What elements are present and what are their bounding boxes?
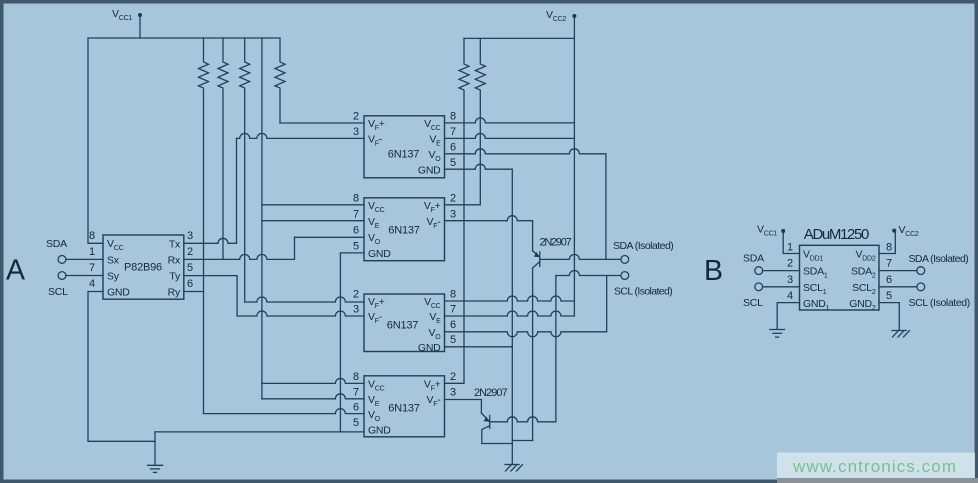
watermark band (777, 478, 978, 483)
svg-text:7: 7 (450, 126, 456, 138)
svg-text:2N2907: 2N2907 (540, 237, 572, 249)
wire SDA1 (763, 270, 800, 272)
svg-text:Sy: Sy (107, 271, 120, 283)
wire VCC1 rail (88, 37, 280, 39)
terminal SCL (B) circle (755, 283, 763, 291)
svg-text:ADuM1250: ADuM1250 (804, 226, 870, 243)
svg-text:7: 7 (353, 387, 359, 399)
svg-text:SCL (Isolated): SCL (Isolated) (909, 297, 971, 309)
wire SCL to Q2 base column (555, 276, 557, 422)
terminal SCL isolated (B) circle (917, 283, 925, 291)
wire opto4 VE line (262, 394, 364, 399)
node VCC2 dot (572, 14, 576, 18)
ground chassis symbol (B) (892, 331, 910, 338)
wire VDD1 feed (783, 233, 799, 254)
svg-text:2: 2 (353, 111, 359, 123)
svg-text:6: 6 (450, 142, 456, 154)
svg-text:5: 5 (886, 290, 892, 302)
wire Tx net to opto1 VF- (184, 138, 237, 243)
wire Q2 base line (490, 417, 556, 422)
wire opto2 VF- to Q1 emitter (445, 216, 533, 251)
wire left VCC drop to P82B96 pin8 (88, 38, 103, 243)
svg-text:3: 3 (787, 274, 793, 286)
svg-text:2N2907: 2N2907 (474, 387, 508, 399)
wire opto4 GND line (155, 431, 364, 433)
transistor Q1 2N2907 (533, 237, 572, 441)
wire opto4 VF- to Q2 emitter (445, 400, 482, 414)
wire GND2 to ground (879, 303, 899, 330)
wire opto1 VCC to VCC2 (445, 118, 575, 123)
wire VDD2 feed (879, 233, 895, 254)
wire Ty net (184, 276, 237, 316)
svg-text:3: 3 (353, 304, 359, 316)
svg-text:Rx: Rx (168, 255, 181, 267)
ground earth symbol (B) (770, 330, 785, 338)
svg-text:A: A (6, 255, 25, 287)
svg-text:7: 7 (89, 262, 95, 274)
resistor R6 (475, 38, 485, 204)
svg-text:2: 2 (450, 371, 456, 383)
wire Q1 collector to ground (512, 440, 532, 442)
terminal SDA isolated (B) circle (917, 267, 925, 275)
svg-text:SCL: SCL (743, 297, 763, 309)
wire SCL2 (879, 286, 917, 288)
wire P82B96 GND to ground (88, 292, 155, 442)
svg-text:7: 7 (450, 304, 456, 316)
svg-text:1: 1 (89, 246, 95, 258)
svg-text:8: 8 (450, 289, 456, 301)
wire Rx net (184, 237, 295, 259)
terminal SCL isolated circle (621, 272, 629, 280)
wire Q2 collector to ground (482, 443, 513, 445)
ground chassis symbol isolated (505, 465, 523, 472)
svg-text:GND: GND (368, 248, 391, 260)
wire isolated ground column (511, 169, 513, 463)
svg-text:5: 5 (450, 157, 456, 169)
wire opto2 VCC line (262, 204, 364, 206)
svg-text:4: 4 (787, 290, 793, 302)
wire opto2 VF+ to R6 (445, 204, 481, 206)
terminal SCL input circle (58, 272, 66, 280)
terminal SDA isolated circle (621, 256, 629, 264)
wire opto3 VCC to VCC2 (445, 296, 575, 301)
svg-text:6: 6 (353, 402, 359, 414)
wire VCC2 column (573, 18, 575, 301)
transistor Q2 2N2907 (474, 387, 508, 444)
wire opto1 VF+ line (280, 122, 364, 124)
svg-text:8: 8 (353, 193, 359, 205)
svg-text:6N137: 6N137 (388, 225, 419, 237)
wire opto2 GND column (340, 253, 364, 432)
wire opto3 VE line (445, 311, 575, 316)
svg-text:Ty: Ty (169, 271, 181, 283)
wire SCL node to opto3 VO (445, 276, 607, 337)
svg-text:8: 8 (450, 111, 456, 123)
svg-text:6N137: 6N137 (387, 320, 418, 332)
wire opto4 VF+ to R5 (445, 382, 465, 384)
wire opto4 VCC line (262, 378, 364, 383)
IC U1 P82B96 box (103, 235, 184, 299)
wire Q1 base SDA line (540, 254, 621, 259)
resistor R2 (218, 38, 228, 259)
opto-coupler U4 6N137 box (third) (364, 294, 445, 352)
svg-text:4: 4 (89, 278, 95, 290)
svg-text:2: 2 (787, 258, 793, 270)
opto-coupler U3 6N137 box (second) (364, 198, 445, 261)
opto-coupler U2 6N137 box (top) (364, 116, 445, 178)
svg-text:6: 6 (886, 274, 892, 286)
svg-text:GND: GND (368, 424, 391, 436)
svg-text:2: 2 (353, 289, 359, 301)
IC U6 ADuM1250 box (800, 245, 880, 310)
wire opto2 VO line (295, 236, 365, 238)
svg-text:6N137: 6N137 (388, 149, 419, 161)
svg-text:SDA (Isolated): SDA (Isolated) (909, 253, 969, 265)
wire opto4 VCC-VE tie stub (261, 383, 263, 398)
svg-text:7: 7 (353, 208, 359, 220)
svg-text:SCL: SCL (48, 286, 68, 298)
svg-text:5: 5 (353, 417, 359, 429)
svg-text:B: B (704, 255, 723, 287)
svg-text:Ry: Ry (168, 287, 181, 299)
wire Ry stub (184, 291, 204, 293)
svg-text:Tx: Tx (169, 238, 181, 250)
wire opto4 VO line (204, 409, 365, 414)
svg-text:5: 5 (187, 262, 193, 274)
terminal SDA input circle (58, 256, 66, 264)
svg-text:GND: GND (107, 287, 130, 299)
svg-text:2: 2 (450, 193, 456, 205)
wire SCL1 (763, 286, 800, 288)
wire opto3 VF- line (237, 311, 364, 316)
svg-text:GND: GND (418, 342, 441, 354)
svg-text:8: 8 (353, 371, 359, 383)
wire ground riser (154, 432, 156, 465)
wire opto3 VCC-VE tie stub (573, 301, 575, 316)
node VCC1 dot (B) (781, 229, 785, 233)
svg-text:www.cntronics.com: www.cntronics.com (792, 457, 956, 476)
svg-text:5: 5 (450, 334, 456, 346)
wire opto1 VO to SDA isolated (445, 149, 606, 260)
svg-text:SDA: SDA (46, 238, 67, 250)
wire opto2 VE line (262, 220, 364, 222)
wire SDA input (66, 258, 103, 260)
svg-text:6: 6 (187, 278, 193, 290)
wire SCL isolated line (556, 271, 621, 276)
svg-text:3: 3 (450, 208, 456, 220)
resistor R1 (199, 38, 209, 414)
svg-text:7: 7 (886, 258, 892, 270)
watermark box (777, 453, 975, 479)
wire opto3 GND to ground column (445, 346, 513, 348)
wire VCC2 rail (464, 37, 574, 39)
svg-text:Sx: Sx (107, 255, 120, 267)
svg-text:SCL (Isolated): SCL (Isolated) (614, 286, 673, 298)
wire opto1 GND to ground column (445, 164, 513, 169)
wire VCC straight column (261, 38, 263, 383)
svg-text:1: 1 (787, 242, 793, 254)
wire GND1 to ground (777, 303, 799, 329)
svg-text:SDA: SDA (743, 253, 764, 265)
svg-text:GND: GND (418, 165, 441, 177)
svg-text:3: 3 (353, 126, 359, 138)
svg-text:SDA (Isolated): SDA (Isolated) (613, 240, 674, 252)
svg-text:8: 8 (89, 230, 95, 242)
svg-text:6: 6 (353, 225, 359, 237)
node VCC2 dot (B) (892, 229, 896, 233)
wire opto3 VF+ line (245, 297, 364, 302)
svg-text:P82B96: P82B96 (124, 262, 162, 274)
svg-text:3: 3 (187, 230, 193, 242)
svg-text:6N137: 6N137 (388, 403, 419, 415)
resistor R5 (459, 38, 469, 383)
wire VCC1 stub (139, 17, 141, 38)
resistor R4 (275, 38, 285, 123)
svg-text:6: 6 (450, 319, 456, 331)
svg-text:5: 5 (353, 241, 359, 253)
opto-coupler U5 6N137 box (bottom) (364, 376, 445, 437)
wire SDA2 (879, 270, 917, 272)
wire opto1 VF- line (237, 133, 365, 138)
resistor R3 (240, 38, 250, 302)
ground earth symbol left (148, 465, 163, 472)
wire SCL input (66, 275, 103, 277)
svg-text:3: 3 (450, 387, 456, 399)
svg-text:2: 2 (187, 246, 193, 258)
terminal SDA (B) circle (755, 267, 763, 275)
wire opto1 VE to VCC2 (445, 133, 575, 138)
svg-text:8: 8 (886, 242, 892, 254)
node VCC1 dot (138, 13, 142, 17)
